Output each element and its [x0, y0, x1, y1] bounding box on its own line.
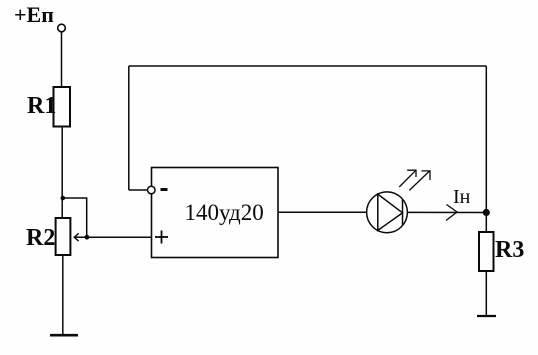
svg-text:R1: R1 [27, 93, 56, 119]
wire node to R3 [485, 213, 487, 233]
feedback wire top segment [129, 65, 487, 67]
wire terminal to R1 [61, 32, 63, 86]
feedback wire right down segment [485, 66, 487, 213]
op-amp minus sign [161, 188, 168, 191]
output wire op-amp to LED [278, 211, 367, 213]
wire wiper to op-amp + input [87, 236, 152, 238]
svg-text:R2: R2 [26, 225, 55, 251]
wire R1 to R2 [61, 126, 63, 218]
LED triangle [378, 194, 403, 230]
op-amp plus sign [155, 236, 168, 238]
svg-text:+Еп: +Еп [14, 2, 54, 27]
terminal +Еп [58, 24, 66, 32]
svg-text:R3: R3 [495, 237, 524, 263]
wiper arrow of R2 [74, 236, 87, 238]
resistor R1 [54, 87, 71, 127]
wire R2 bottom to ground [62, 255, 64, 335]
node junction R2 top [61, 196, 66, 201]
node wiper junction [85, 235, 90, 240]
op-amp U1 body [152, 168, 279, 258]
LED emission arrow 2 [409, 171, 430, 191]
current direction arrowhead Iн [446, 205, 457, 221]
ground left [50, 334, 78, 337]
potentiometer R2 [56, 218, 71, 255]
LED circle [367, 192, 408, 233]
inverting input terminal circle [148, 186, 156, 194]
svg-text:140уд20: 140уд20 [185, 200, 264, 225]
feedback wire up segment [128, 66, 130, 190]
resistor R3 [479, 232, 494, 271]
LED emission arrow 1 [399, 170, 416, 187]
wire LED to output node [407, 211, 486, 213]
wire junction to wiper [62, 198, 87, 237]
svg-text:Iн: Iн [453, 186, 471, 208]
ground right [477, 315, 496, 317]
node output junction [483, 209, 490, 216]
wire R3 to ground [485, 272, 487, 316]
feedback wire left segment [129, 189, 148, 191]
LED cathode bar [402, 199, 404, 224]
